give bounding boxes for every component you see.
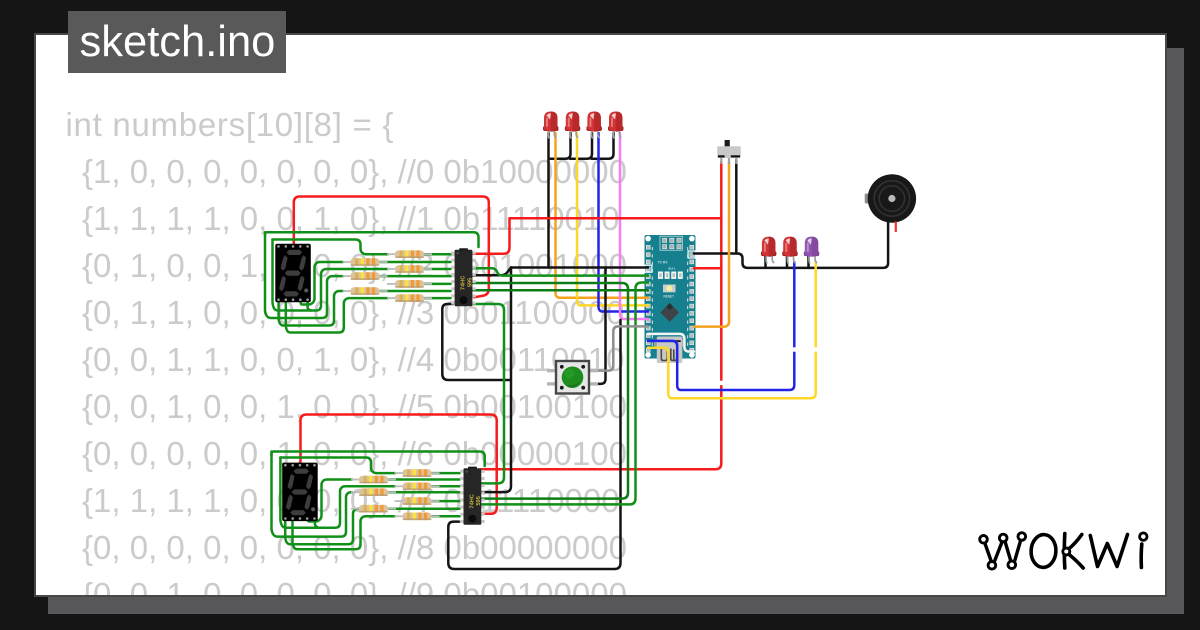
wire green res1B2 to shift1 bbox=[425, 268, 451, 271]
title tab sketch.ino bbox=[68, 11, 286, 74]
wire black shift2 GND loop bbox=[448, 320, 620, 569]
wire green d1 pin1 loop bbox=[279, 291, 343, 326]
wire green d1 pin4 right riser bbox=[301, 262, 343, 305]
wire green d2 pin1 loop bbox=[285, 509, 360, 545]
wire LED4 anode magenta to nano bbox=[620, 133, 648, 319]
wire LED2 cathode to black bus bbox=[550, 133, 571, 159]
resistor R2 group1 colA bbox=[343, 272, 388, 280]
resistor R4 group1 colB bbox=[387, 250, 432, 258]
wire green res2B3 to shift2 bbox=[432, 500, 460, 503]
svg-text:BUI 1: BUI 1 bbox=[669, 267, 676, 271]
LED D1 red bbox=[543, 112, 559, 139]
svg-text:595: 595 bbox=[467, 278, 473, 287]
resistor R8 group2 colA bbox=[351, 476, 396, 484]
wire hop gap on blue vertical bbox=[792, 347, 796, 351]
wire black mid-LED2 cathode stub bbox=[786, 256, 789, 268]
slide switch SW1 bbox=[717, 140, 741, 164]
wire red display2 VCC loop to shift register 2 bbox=[301, 415, 497, 514]
wire black shift1 pin8 jog to bus bbox=[472, 268, 511, 276]
LED D6 red bbox=[782, 237, 798, 264]
wire LED1 anode orange to nano bbox=[556, 133, 649, 298]
wire green res2A3 to shift2 bbox=[389, 507, 460, 510]
wire green res1B1 to shift1 bbox=[425, 253, 451, 256]
wire black mid-LED1 cathode stub bbox=[764, 256, 767, 268]
wire green d1 top to resB1 bbox=[273, 240, 389, 255]
wire black bus to nano GND bbox=[511, 266, 648, 269]
wire green d2 loop outer-left bbox=[272, 452, 485, 467]
wire hop gap on yellow vertical bbox=[814, 347, 818, 351]
wire green d1 pin2 loop bbox=[286, 298, 388, 332]
wire blue nano to LED6 bbox=[648, 262, 794, 390]
wire green d2 left vert B bbox=[280, 458, 395, 528]
wire green d1 left vert A bbox=[265, 232, 343, 318]
svg-text:595: 595 bbox=[476, 496, 482, 505]
Arduino Nano U3 bbox=[645, 235, 696, 359]
svg-text:RESET: RESET bbox=[664, 295, 675, 299]
LED D2 red bbox=[565, 112, 581, 139]
wire gray pushbutton to nano bbox=[589, 326, 648, 370]
buzzer BZ1 bbox=[865, 174, 916, 232]
wire red switch down the page bbox=[481, 162, 721, 469]
wire green res1A1 to shift1 bbox=[380, 261, 451, 264]
wire white nano jumper bbox=[648, 334, 694, 352]
wire green res2B2 to shift2 bbox=[432, 485, 460, 488]
wire green daisy chain A bbox=[472, 283, 628, 499]
LED D5 red bbox=[761, 237, 777, 264]
wire green shift1 to nano straight bbox=[472, 289, 648, 292]
wire green res1B4 to shift1 bbox=[425, 297, 451, 300]
wire red nano VIN tap bbox=[694, 267, 721, 270]
resistor R12 group2 colB bbox=[395, 483, 440, 491]
wire black mid-LED3 cathode stub bbox=[807, 256, 810, 268]
wire green res1A3 to shift1 bbox=[380, 290, 451, 293]
wire black switch leg down bbox=[735, 160, 738, 254]
Wokwi logo bbox=[980, 533, 1147, 569]
wire green shift1 bottom to shift2 bbox=[473, 304, 504, 483]
wire red display1 VCC loop to shift register 1 bbox=[294, 197, 489, 298]
wire LED4 cathode to black bus bbox=[592, 133, 614, 159]
wire LED3 cathode to black bus bbox=[570, 133, 592, 159]
wire orange switch to nano bbox=[694, 162, 729, 327]
resistor R1 group1 colA bbox=[343, 258, 388, 266]
svg-text:74HC: 74HC bbox=[461, 276, 467, 290]
wire black nano to switch and buzzer bbox=[694, 221, 888, 268]
wire green d2 left vert A bbox=[272, 452, 353, 537]
7-segment display DSP2 bbox=[282, 463, 318, 521]
wire green d2 top to resB1 bbox=[280, 458, 395, 474]
resistor R3 group1 colA bbox=[343, 287, 388, 295]
svg-text:TX RX: TX RX bbox=[658, 261, 669, 265]
resistor R10 group2 colA bbox=[351, 505, 396, 513]
resistor R6 group1 colB bbox=[387, 280, 432, 288]
pushbutton BTN1 bbox=[547, 361, 598, 394]
LED D4 red bbox=[608, 112, 624, 139]
resistor R7 group1 colB bbox=[387, 294, 432, 302]
wire black shift1 GND loop bbox=[442, 304, 510, 380]
wire green d1 left vert B bbox=[273, 240, 389, 311]
resistor R13 group2 colB bbox=[395, 497, 440, 505]
wire green d2 pin2 loop bbox=[293, 516, 396, 549]
wire LED3 anode blue to nano bbox=[599, 133, 649, 312]
wire black pushbutton to bus bbox=[589, 268, 606, 384]
wire green res1A2 to shift1 bbox=[380, 275, 451, 278]
wire red shift register1 pin16 up to 5V rail bbox=[472, 218, 509, 254]
LED D3 red bbox=[586, 112, 602, 139]
wire red 5V rail to switch bbox=[510, 217, 722, 220]
faded source code text bbox=[66, 101, 627, 618]
resistor R14 group2 colB bbox=[395, 513, 440, 521]
wire green d2 pin5 stub bbox=[315, 518, 318, 528]
wire green res2A2 to shift2 bbox=[389, 491, 460, 494]
wire LED2 anode yellow to nano bbox=[577, 133, 648, 305]
nano USB connector bbox=[654, 337, 685, 364]
wire green res1B3 to shift1 bbox=[425, 283, 451, 286]
shift register U1 74HC595 bbox=[451, 248, 476, 306]
wire green daisy chain B bbox=[481, 283, 648, 505]
wire hop gap on red vertical bbox=[719, 381, 723, 385]
wire green d1 pin5 stub bbox=[308, 301, 311, 311]
shift register U2 74HC595 bbox=[460, 467, 485, 525]
wire green d1 loop outer-left bbox=[265, 232, 479, 247]
resistor R11 group2 colB bbox=[395, 469, 440, 477]
LED D7 purple bbox=[804, 237, 820, 264]
wire green d2 pin4 right riser bbox=[308, 480, 352, 522]
wire green res2B1 to shift2 bbox=[432, 472, 460, 475]
buzzer red pin stub bbox=[895, 222, 897, 233]
wire black vertical to shift2 bbox=[481, 268, 511, 493]
resistor R5 group1 colB bbox=[387, 265, 432, 273]
wire green shift1 to nano jog bbox=[472, 268, 648, 275]
wire yellow nano to LED7 bbox=[648, 262, 816, 398]
resistor R9 group2 colA bbox=[351, 488, 396, 496]
7-segment display DSP1 bbox=[275, 244, 311, 302]
wire green res2A1 to shift2 bbox=[389, 478, 460, 481]
wire LED1 cathode (black) down to GND bus bbox=[547, 133, 550, 268]
wire green res2B4 to shift2 bbox=[432, 515, 460, 518]
svg-text:74HC: 74HC bbox=[470, 494, 476, 508]
